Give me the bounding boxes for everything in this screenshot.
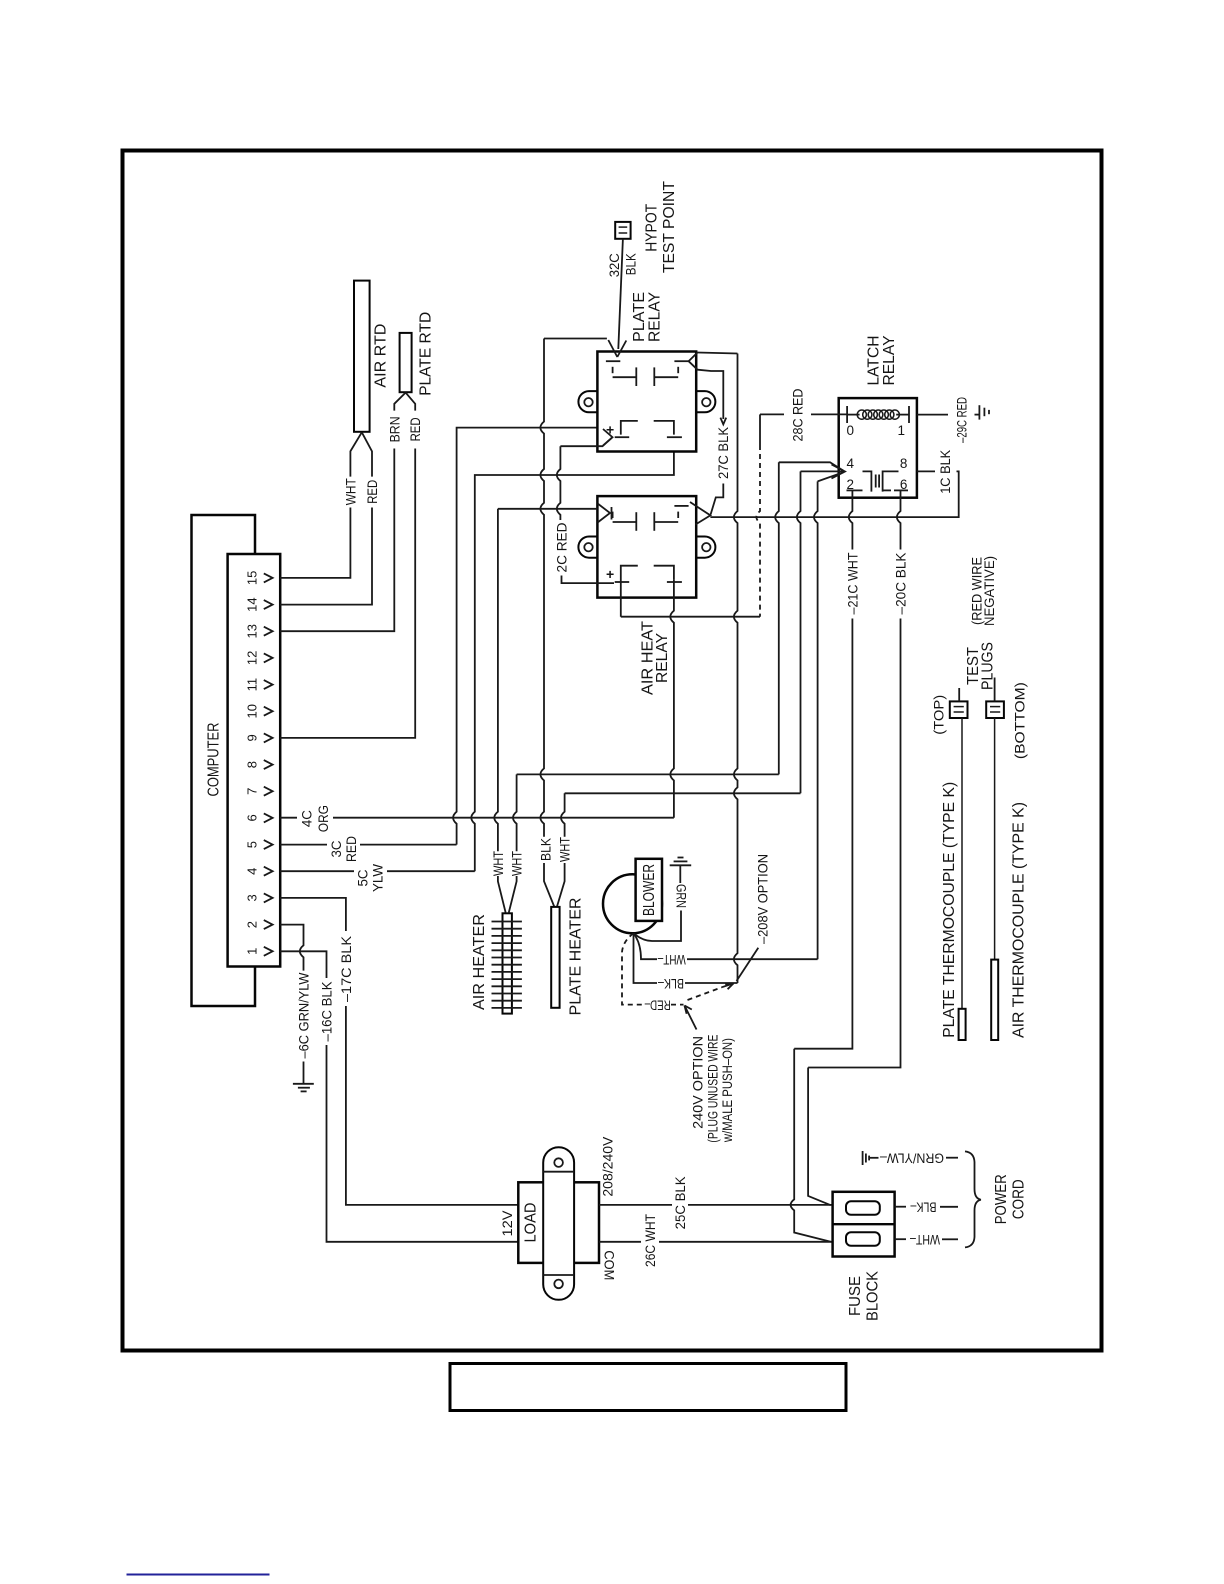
plate thermocouple sensor bbox=[959, 1009, 966, 1040]
svg-text:12V: 12V bbox=[500, 1211, 515, 1237]
svg-text:NEGATIVE): NEGATIVE) bbox=[982, 556, 997, 626]
svg-text:–20C BLK: –20C BLK bbox=[894, 553, 909, 615]
svg-text:PLATE HEATER: PLATE HEATER bbox=[568, 898, 585, 1016]
svg-text:28C RED: 28C RED bbox=[791, 388, 806, 441]
hypot test point symbol bbox=[615, 222, 630, 239]
svg-text:BLK: BLK bbox=[539, 838, 554, 861]
svg-text:1C BLK: 1C BLK bbox=[938, 450, 953, 494]
H2 bus plate-WHT to latch B vertical bbox=[565, 792, 801, 794]
svg-text:PLATE: PLATE bbox=[631, 292, 648, 342]
svg-text:RELAY: RELAY bbox=[647, 292, 664, 342]
air relay bottom-left coil bracket bbox=[621, 566, 638, 617]
air thermocouple wire bbox=[994, 718, 996, 960]
svg-text:LATCH: LATCH bbox=[866, 336, 883, 386]
svg-text:27C BLK: 27C BLK bbox=[716, 427, 731, 479]
svg-text:–21C WHT: –21C WHT bbox=[845, 553, 860, 615]
svg-text:8: 8 bbox=[245, 761, 260, 768]
wire 29C RED latch coil 1 to ground bbox=[917, 414, 948, 416]
svg-text:BLK: BLK bbox=[624, 253, 639, 275]
dashed leader to BLK junction bbox=[688, 987, 723, 1000]
wire air relay + to dashed vertical (y616) bbox=[621, 616, 760, 618]
wire to air relay top-left arrow bbox=[498, 508, 598, 510]
wire 5C YLW vertical and run to plate relay coil - bbox=[471, 435, 674, 872]
fuse block outer bbox=[833, 1192, 895, 1257]
svg-text:–29C RED: –29C RED bbox=[954, 397, 969, 443]
svg-text:7: 7 bbox=[245, 788, 260, 795]
power cord brace bbox=[965, 1151, 981, 1247]
svg-text:32C: 32C bbox=[607, 253, 622, 277]
svg-text:PLATE RTD: PLATE RTD bbox=[417, 312, 434, 396]
svg-text:HYPOT: HYPOT bbox=[644, 203, 661, 251]
svg-text:YLW: YLW bbox=[370, 864, 385, 892]
svg-text:WHT: WHT bbox=[558, 837, 573, 862]
wire 5C YLW pin4 bbox=[280, 870, 354, 872]
air heat relay box bbox=[597, 496, 696, 597]
svg-text:240V OPTION: 240V OPTION bbox=[691, 1036, 706, 1129]
latch left arrow terminal bbox=[832, 465, 846, 479]
svg-text:WHT: WHT bbox=[491, 851, 506, 876]
svg-text:(BOTTOM): (BOTTOM) bbox=[1013, 682, 1028, 759]
blower GRN lead bbox=[634, 911, 682, 942]
svg-text:(PLUG UNUSED WIRE: (PLUG UNUSED WIRE bbox=[706, 1035, 721, 1143]
blower box bbox=[636, 859, 662, 921]
svg-text:FUSE: FUSE bbox=[847, 1276, 864, 1316]
svg-text:PLATE THERMOCOUPLE (TYPE K): PLATE THERMOCOUPLE (TYPE K) bbox=[941, 782, 958, 1038]
wire pin3 17C BLK bbox=[280, 898, 346, 931]
svg-text:RED: RED bbox=[365, 480, 380, 504]
svg-text:1: 1 bbox=[245, 948, 260, 955]
computer connector inner box bbox=[228, 554, 281, 967]
svg-text:–6C GRN/YLW: –6C GRN/YLW bbox=[297, 972, 312, 1058]
svg-text:WHT–: WHT– bbox=[657, 952, 685, 967]
plate relay top-right terminal stub and arrow bbox=[674, 360, 688, 362]
latch relay coil loops bbox=[857, 410, 866, 419]
wire pin14 to air RTD (RED) bbox=[280, 508, 372, 605]
svg-text:1: 1 bbox=[898, 423, 906, 438]
svg-text:4: 4 bbox=[245, 868, 260, 875]
wire pin13 to plate RTD (BRN) bbox=[280, 449, 394, 632]
leader arrow to 240V OPTION text bbox=[685, 1006, 697, 1030]
svg-text:RELAY: RELAY bbox=[881, 336, 898, 386]
svg-text:RED–: RED– bbox=[644, 998, 670, 1013]
svg-text:PLUGS: PLUGS bbox=[980, 642, 997, 690]
svg-text:–17C BLK: –17C BLK bbox=[339, 936, 354, 1002]
fuse WHT stub bbox=[895, 1238, 906, 1240]
latch contacts between pins 2 and 6 bbox=[847, 489, 863, 491]
air heater WHT wire 2 from H1 bbox=[513, 774, 517, 851]
wire 28C RED latch coil 0 to dashed vertical bbox=[760, 413, 784, 415]
svg-text:14: 14 bbox=[245, 597, 260, 611]
svg-text:–208V OPTION: –208V OPTION bbox=[756, 854, 771, 944]
svg-text:15: 15 bbox=[245, 571, 260, 585]
svg-text:11: 11 bbox=[245, 678, 260, 692]
svg-text:13: 13 bbox=[245, 624, 260, 638]
plate thermocouple wire bbox=[961, 718, 963, 1009]
svg-text:AIR THERMOCOUPLE (TYPE K): AIR THERMOCOUPLE (TYPE K) bbox=[1010, 802, 1027, 1038]
air heater WHT wire 1 bbox=[494, 509, 498, 852]
plate RTD body bbox=[400, 333, 412, 392]
svg-text:5: 5 bbox=[245, 841, 260, 848]
transformer body bbox=[518, 1182, 599, 1263]
wire from 544 vertical to hypot arrow bbox=[544, 338, 607, 340]
svg-text:BLOWER: BLOWER bbox=[641, 864, 658, 916]
svg-text:BRN: BRN bbox=[387, 416, 402, 442]
air RTD body bbox=[354, 281, 370, 432]
air relay top-right terminal stub and arrow bbox=[674, 505, 688, 507]
svg-text:25C BLK: 25C BLK bbox=[673, 1176, 688, 1229]
svg-text:6: 6 bbox=[245, 814, 260, 821]
svg-text:4: 4 bbox=[847, 456, 855, 471]
vertical 778 latch A to H1 bbox=[775, 462, 779, 774]
transformer strap bbox=[543, 1147, 574, 1300]
plate relay bottom-right coil bracket bbox=[654, 421, 674, 435]
svg-text:+: + bbox=[606, 566, 614, 582]
plate heater WHT wire from H2 bbox=[561, 793, 565, 837]
27C BLK arrowhead bbox=[720, 418, 726, 425]
fuse 2 bbox=[846, 1232, 880, 1246]
svg-text:2C RED: 2C RED bbox=[555, 522, 570, 572]
svg-text:0: 0 bbox=[847, 423, 855, 438]
border frame bbox=[123, 151, 1102, 1351]
wire plate relay top-right to 27C BLK bbox=[698, 370, 724, 419]
computer connector outer box bbox=[192, 515, 256, 1006]
svg-text:COM: COM bbox=[602, 1250, 617, 1280]
wire 3C RED pin5 bbox=[280, 844, 327, 846]
plate relay top contact 1 bbox=[613, 376, 637, 378]
vertical 800 latch B to H2 bbox=[797, 471, 801, 793]
plate heater element bbox=[551, 907, 559, 1008]
wire 2C RED top run into plate + bbox=[560, 438, 611, 446]
wire 26C WHT transformer to fuse bbox=[599, 1241, 641, 1243]
footer blue line bbox=[127, 1574, 270, 1576]
vertical 737 plate-relay to blower BLK bbox=[734, 354, 738, 984]
ground at GRN bbox=[679, 865, 681, 883]
wire 20C BLK latch pin6 down bbox=[897, 490, 901, 549]
blower RED dashed lead bbox=[622, 933, 644, 1004]
air heater element bbox=[503, 913, 512, 1013]
ground at fuse GRN/YLW bbox=[862, 1151, 864, 1165]
plate relay right mounting tab bbox=[695, 391, 715, 412]
svg-text:3C: 3C bbox=[329, 840, 344, 857]
air relay right mounting tab bbox=[695, 537, 715, 558]
wire pin1 16C BLK bbox=[280, 951, 327, 978]
svg-text:LOAD: LOAD bbox=[523, 1203, 540, 1243]
svg-text:COMPUTER: COMPUTER bbox=[206, 723, 223, 797]
svg-text:26C WHT: 26C WHT bbox=[643, 1214, 658, 1267]
wire C latch arrow from 817 vertical bbox=[818, 472, 844, 481]
svg-text:(TOP): (TOP) bbox=[932, 695, 947, 735]
wire 4C ORG pin6 bbox=[280, 817, 297, 819]
svg-text:AIR HEATER: AIR HEATER bbox=[471, 914, 488, 1010]
wire pin15 to air RTD (WHT) bbox=[280, 508, 350, 578]
wire 25C BLK transformer to fuse bbox=[599, 1204, 672, 1206]
svg-text:WHT–: WHT– bbox=[910, 1232, 940, 1247]
svg-text:GRN/YLW–: GRN/YLW– bbox=[880, 1150, 944, 1165]
wire B latch arrow from 800 vertical bbox=[801, 470, 844, 472]
svg-text:5C: 5C bbox=[356, 869, 371, 886]
plate relay box bbox=[597, 352, 696, 452]
test plug bottom symbol bbox=[986, 701, 1004, 718]
wire 1C BLK latch pin8 down-left to air relay arrow bbox=[917, 470, 935, 472]
wire 3C RED vertical to plate relay coil + bbox=[453, 428, 612, 845]
blower BLK lead bbox=[634, 933, 658, 983]
svg-text:WHT: WHT bbox=[343, 478, 358, 505]
svg-text:ORG: ORG bbox=[316, 805, 331, 832]
svg-text:RELAY: RELAY bbox=[654, 633, 671, 683]
air relay top contact 2 bbox=[654, 521, 678, 523]
svg-text:BLK–: BLK– bbox=[658, 976, 684, 991]
svg-text:WHT: WHT bbox=[510, 851, 525, 876]
wire A latch arrow from 778 vertical bbox=[779, 462, 844, 471]
svg-text:w/MALE PUSH–ON): w/MALE PUSH–ON) bbox=[720, 1038, 735, 1143]
wire pin2 6C GRN/YLW with hop over pin1 wire bbox=[280, 925, 304, 971]
svg-text:–16C BLK: –16C BLK bbox=[320, 982, 335, 1042]
wire 32C BLK from hypot to plate relay bbox=[618, 239, 623, 349]
blower circle bbox=[603, 874, 662, 933]
svg-text:AIR RTD: AIR RTD bbox=[372, 324, 389, 388]
svg-text:RED: RED bbox=[344, 836, 359, 862]
svg-text:BLOCK: BLOCK bbox=[865, 1270, 882, 1321]
wire air relay coil- down to 4C ORG bbox=[670, 579, 674, 817]
air relay bottom-right coil bracket bbox=[654, 566, 674, 580]
svg-text:TEST POINT: TEST POINT bbox=[661, 181, 678, 274]
plate relay top contact 2 bbox=[654, 376, 678, 378]
svg-text:POWER: POWER bbox=[993, 1174, 1010, 1224]
air thermocouple sensor bbox=[991, 960, 998, 1040]
wire 2C RED bbox=[557, 446, 561, 520]
fuse 1 bbox=[846, 1201, 880, 1215]
plate heater BLK wire from hypot run bbox=[540, 339, 544, 837]
blower WHT lead bbox=[634, 933, 658, 959]
leader from junction to 208V OPTION label bbox=[737, 948, 759, 981]
ground at 6C GRN/YLW bbox=[303, 1062, 305, 1084]
wire pin9 to plate RTD (RED) bbox=[280, 449, 415, 738]
title box bbox=[450, 1364, 846, 1411]
svg-text:12: 12 bbox=[245, 651, 260, 665]
svg-text:RED: RED bbox=[408, 417, 423, 441]
plate relay left mounting tab bbox=[578, 391, 598, 412]
ground at 29C RED bbox=[978, 405, 980, 419]
wire grn/ylw dash bbox=[946, 1157, 958, 1159]
dashed vertical 760 28C to air relay + bbox=[759, 414, 761, 445]
latch relay box bbox=[839, 398, 917, 498]
vertical 817 latch C to blower WHT bbox=[814, 481, 818, 959]
svg-text:8: 8 bbox=[900, 456, 908, 471]
svg-text:9: 9 bbox=[245, 734, 260, 741]
plate relay top-left terminal stub and arrow bbox=[606, 360, 620, 362]
svg-text:BLK–: BLK– bbox=[910, 1200, 936, 1215]
svg-text:GRN: GRN bbox=[674, 884, 689, 908]
plate relay bottom-left coil bracket bbox=[621, 421, 638, 435]
latch relay coil line and terminals bbox=[846, 406, 848, 423]
H1 bus air-WHT2 to latch A vertical bbox=[517, 773, 779, 775]
27C BLK leader to air relay arrow bbox=[711, 484, 724, 515]
svg-text:4C: 4C bbox=[300, 810, 315, 827]
svg-text:3: 3 bbox=[245, 894, 260, 901]
fuse BLK stub bbox=[895, 1206, 906, 1208]
air relay left mounting tab bbox=[578, 537, 598, 558]
svg-text:10: 10 bbox=[245, 704, 260, 718]
svg-text:CORD: CORD bbox=[1011, 1179, 1028, 1219]
wire 21C WHT latch pin2 down bbox=[849, 490, 853, 549]
air relay top-left arrow bbox=[598, 504, 610, 523]
wire plate relay top-right to 737 vertical bbox=[698, 353, 738, 354]
svg-text:2: 2 bbox=[245, 921, 260, 928]
svg-text:208/240V: 208/240V bbox=[601, 1137, 616, 1197]
test plug top symbol bbox=[950, 701, 968, 718]
air relay top contact 1 bbox=[613, 521, 637, 523]
plate relay + arrow from wires bbox=[603, 429, 613, 446]
